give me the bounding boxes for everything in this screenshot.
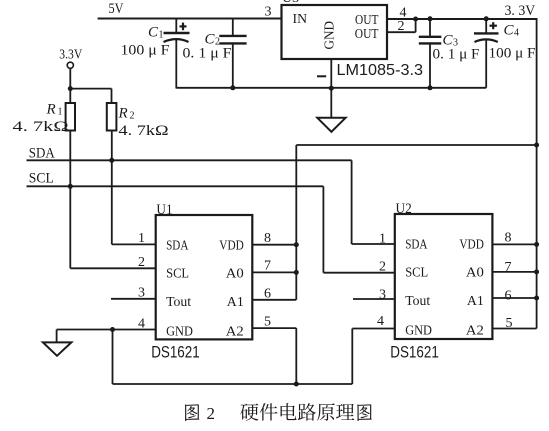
svg-text:7: 7 [505, 260, 512, 275]
svg-text:SCL: SCL [29, 171, 54, 187]
svg-text:5V: 5V [109, 1, 124, 17]
svg-text:C: C [504, 23, 515, 39]
svg-text:SDA: SDA [405, 238, 428, 253]
svg-text:3: 3 [265, 5, 272, 20]
svg-text:4: 4 [377, 314, 384, 329]
svg-text:IN: IN [293, 12, 308, 27]
svg-text:0. 1 μ F: 0. 1 μ F [183, 46, 232, 62]
svg-text:A0: A0 [466, 266, 484, 281]
svg-text:5: 5 [506, 316, 513, 331]
svg-text:OUT: OUT [355, 13, 379, 28]
svg-text:GND: GND [322, 21, 337, 50]
svg-text:GND: GND [166, 325, 193, 340]
svg-text:6: 6 [505, 288, 512, 303]
svg-text:A1: A1 [227, 295, 244, 310]
svg-text:2: 2 [130, 111, 135, 122]
svg-text:SCL: SCL [405, 266, 428, 281]
svg-text:3. 3V: 3. 3V [505, 3, 536, 19]
svg-text:Tout: Tout [405, 294, 430, 309]
svg-text:VDD: VDD [219, 239, 244, 254]
svg-text:GND: GND [405, 324, 432, 339]
svg-text:A2: A2 [226, 325, 244, 340]
svg-text:5: 5 [264, 314, 271, 329]
svg-text:3.3V: 3.3V [59, 47, 82, 62]
svg-text:DS1621: DS1621 [390, 342, 439, 361]
svg-text:4: 4 [514, 28, 519, 39]
svg-text:0. 1 μ F: 0. 1 μ F [433, 46, 480, 62]
svg-text:Tout: Tout [166, 295, 191, 310]
svg-text:2: 2 [398, 19, 405, 34]
svg-text:R: R [46, 102, 56, 118]
svg-text:DS1621: DS1621 [151, 343, 200, 362]
svg-text:2: 2 [138, 255, 145, 270]
svg-text:LM1085-3.3: LM1085-3.3 [337, 62, 424, 79]
svg-text:U2: U2 [396, 201, 412, 217]
svg-text:VDD: VDD [459, 238, 484, 253]
svg-text:3: 3 [379, 287, 386, 302]
svg-text:SDA: SDA [29, 146, 55, 162]
svg-text:SCL: SCL [166, 267, 189, 282]
svg-text:2: 2 [379, 259, 386, 274]
svg-text:4: 4 [138, 316, 145, 331]
svg-text:A2: A2 [466, 324, 484, 339]
svg-text:1: 1 [159, 30, 164, 41]
svg-text:R: R [118, 106, 128, 122]
svg-text:100 μ F: 100 μ F [121, 43, 170, 59]
svg-text:8: 8 [264, 231, 271, 246]
svg-text:1: 1 [379, 231, 386, 246]
svg-text:C: C [148, 25, 159, 41]
svg-text:OUT: OUT [355, 27, 379, 42]
svg-text:SDA: SDA [166, 239, 189, 254]
svg-text:2: 2 [207, 404, 216, 423]
svg-text:8: 8 [505, 230, 512, 245]
svg-text:100 μ F: 100 μ F [489, 45, 536, 61]
svg-text:1: 1 [58, 107, 63, 118]
svg-text:U1: U1 [156, 202, 172, 218]
svg-text:A0: A0 [226, 267, 244, 282]
svg-text:4. 7kΩ: 4. 7kΩ [119, 123, 169, 139]
svg-text:A1: A1 [467, 294, 484, 309]
svg-text:1: 1 [138, 231, 145, 246]
svg-text:3: 3 [138, 286, 145, 301]
svg-text:7: 7 [264, 258, 271, 273]
svg-text:6: 6 [264, 286, 271, 301]
svg-text:4. 7kΩ: 4. 7kΩ [13, 119, 69, 135]
